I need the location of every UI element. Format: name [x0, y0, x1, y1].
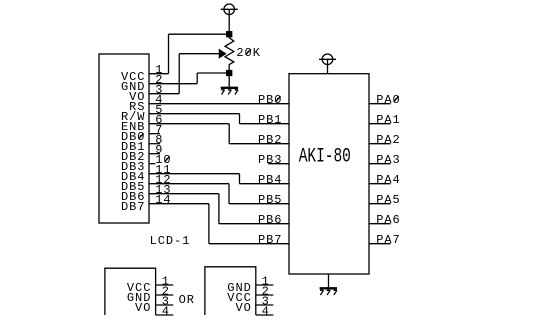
svg-text:PB0: PB0 — [258, 93, 282, 107]
svg-text:PA7: PA7 — [376, 233, 400, 247]
wire junction to ground — [228, 75, 230, 87]
connector J1 outline — [105, 268, 156, 315]
connector J1 pin2 — [156, 294, 174, 296]
stub PA7 — [369, 243, 391, 245]
wire pin2 GND horizontal — [149, 83, 197, 85]
ground below potentiometer — [221, 88, 238, 95]
stub PA0 — [369, 103, 391, 105]
wire pin5 drop — [239, 114, 241, 124]
ground below AKI-80 — [320, 288, 337, 295]
svg-text:PA3: PA3 — [376, 153, 400, 167]
stub pin7 DB0 — [149, 133, 160, 135]
connector J2 pin1 — [256, 284, 273, 286]
wire pin4 RS to PB0 — [149, 103, 289, 105]
svg-text:14: 14 — [155, 193, 171, 207]
svg-text:AKI-80: AKI-80 — [299, 145, 351, 168]
wire pin14 DB7 horizontal — [149, 203, 209, 205]
junction resistor bottom — [227, 71, 232, 76]
wire to PB4 — [240, 183, 290, 185]
stub PB3 — [268, 163, 289, 165]
wire pin5 R/W horizontal — [149, 113, 240, 115]
potentiometer wiper arrow — [219, 50, 225, 58]
connector J1 pin4 — [156, 314, 174, 316]
svg-text:DB7: DB7 — [121, 200, 145, 214]
stub PA2 — [369, 143, 391, 145]
wire AKI-80 ground — [328, 274, 330, 288]
LCD module outline — [99, 54, 149, 223]
AKI-80 module outline — [289, 74, 369, 274]
stub PA3 — [369, 163, 391, 165]
svg-text:VO: VO — [135, 301, 151, 315]
wire pin6 ENB horizontal — [149, 123, 229, 125]
stub pin10 DB3 — [149, 163, 155, 165]
wire pin14 drop — [208, 204, 210, 244]
wire to resistor top junction — [169, 33, 230, 35]
wire pin13 DB6 horizontal — [149, 193, 219, 195]
svg-text:PB3: PB3 — [258, 153, 282, 167]
stub PA5 — [369, 203, 391, 205]
wire pin6 drop — [228, 124, 230, 144]
stub pin9 DB2 — [149, 153, 160, 155]
svg-text:4: 4 — [162, 304, 170, 318]
wire pin3 VO horizontal — [149, 93, 179, 95]
svg-text:4: 4 — [262, 304, 270, 318]
power symbol VCC above potentiometer — [221, 4, 238, 38]
wire pin2 riser — [196, 73, 198, 84]
wire pin1 VCC horizontal — [149, 73, 169, 75]
stub PA6 — [369, 223, 391, 225]
wire pin11 drop — [239, 174, 241, 184]
connector J2 outline — [205, 267, 256, 315]
connector J2 pin2 — [256, 294, 273, 296]
svg-text:LCD-1: LCD-1 — [150, 234, 191, 248]
svg-text:PA6: PA6 — [376, 213, 400, 227]
svg-text:OR: OR — [179, 293, 195, 307]
svg-text:PB1: PB1 — [258, 113, 282, 127]
svg-text:PB4: PB4 — [258, 173, 282, 187]
wire to potentiometer wiper — [179, 53, 220, 55]
svg-text:PA1: PA1 — [376, 113, 400, 127]
connector J1 pin1 — [156, 284, 174, 286]
wire to PB1 — [240, 123, 290, 125]
svg-text:PB6: PB6 — [258, 213, 282, 227]
wire pin11 DB4 horizontal — [149, 173, 240, 175]
wire to PB5 — [229, 203, 289, 205]
wire pin12 DB5 horizontal — [149, 183, 229, 185]
power symbol VCC on AKI-80 — [319, 54, 336, 74]
svg-text:PB2: PB2 — [258, 133, 282, 147]
svg-text:PB7: PB7 — [258, 233, 282, 247]
svg-text:PA4: PA4 — [376, 173, 400, 187]
wire to PB7 — [209, 243, 289, 245]
svg-text:PA5: PA5 — [376, 193, 400, 207]
junction resistor top — [227, 32, 232, 37]
stub PA4 — [369, 183, 391, 185]
connector J2 pin4 — [256, 314, 273, 316]
wire to resistor bottom junction — [197, 72, 229, 74]
svg-text:VO: VO — [235, 301, 251, 315]
wire to PB6 — [219, 223, 289, 225]
wire pin3 riser — [178, 54, 180, 94]
wire pin12 drop — [228, 184, 230, 204]
connector J1 pin3 — [156, 304, 174, 306]
svg-text:PB5: PB5 — [258, 193, 282, 207]
connector J2 pin3 — [256, 304, 273, 306]
svg-text:PA2: PA2 — [376, 133, 400, 147]
stub PA1 — [369, 123, 391, 125]
wire to PB2 — [229, 143, 289, 145]
wire pin13 drop — [218, 194, 220, 224]
stub pin8 DB1 — [149, 143, 160, 145]
svg-text:20K: 20K — [236, 46, 260, 60]
wire pin1 riser — [168, 34, 170, 73]
potentiometer R 20K body — [225, 37, 234, 71]
svg-text:PA0: PA0 — [376, 93, 400, 107]
